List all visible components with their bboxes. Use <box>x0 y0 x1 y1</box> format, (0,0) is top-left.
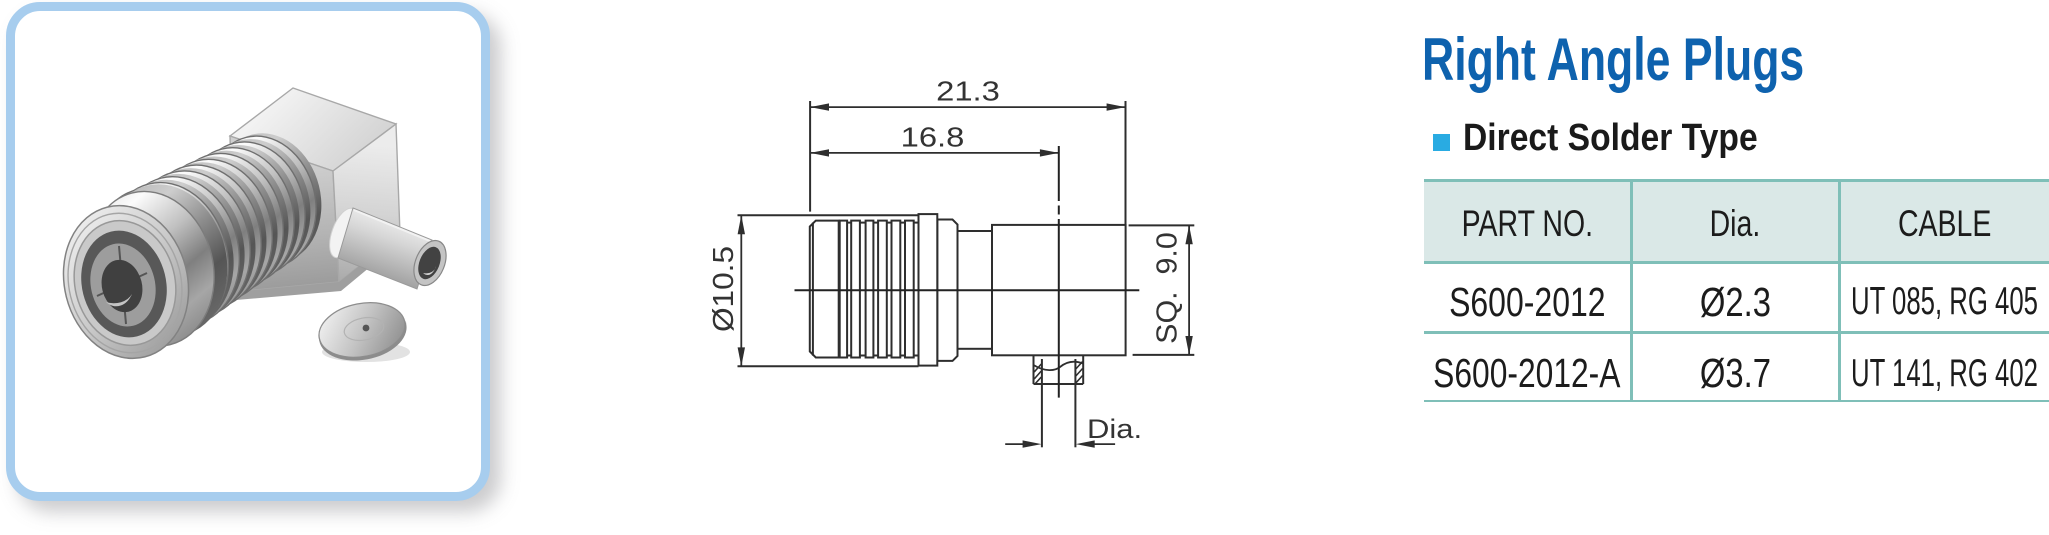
sleeve diagonal slot <box>97 273 147 296</box>
Dia. leader left <box>1005 443 1024 445</box>
cap disc top <box>314 296 410 365</box>
front rim <box>810 221 839 358</box>
cap disc inner ring <box>342 314 385 343</box>
body rib ring 5 <box>143 147 287 313</box>
dimension line SQ 9.0 <box>1188 225 1190 355</box>
Dia. bore extension lines <box>1041 384 1043 447</box>
row2 dia <box>1632 340 1838 407</box>
extension line right of 21.3 <box>1125 101 1127 225</box>
block lower edge shadow <box>234 234 400 300</box>
header CABLE <box>1840 184 2049 264</box>
rib 6 <box>905 221 914 358</box>
right angle block top face <box>230 88 396 171</box>
extension lines SQ 9.0 <box>1129 224 1195 226</box>
header Dia. <box>1632 184 1838 264</box>
cap disc shadow <box>322 342 410 362</box>
sleeve interior highlight <box>106 294 132 306</box>
contact sleeve <box>82 237 164 334</box>
body rib ring 0 <box>77 175 233 355</box>
solder pot right wall <box>1082 355 1084 384</box>
extension line left of 21.3/16.8 <box>809 101 811 212</box>
svg-text:Ø10.5: Ø10.5 <box>708 246 740 332</box>
front rim inner edge <box>812 223 814 356</box>
arrow bottom dia10.5 <box>738 347 745 366</box>
extension lines dia 10.5 <box>738 214 919 216</box>
rim step ring <box>54 201 197 365</box>
Dia. leader right <box>1093 443 1115 445</box>
arrow top dia10.5 <box>738 215 745 234</box>
solder pot break wave <box>1034 362 1084 370</box>
rib 5 <box>892 221 901 358</box>
flange <box>919 214 938 366</box>
svg-text:Dia.: Dia. <box>1087 415 1142 445</box>
rib 2 <box>851 221 860 358</box>
svg-text:SQ. 9.0: SQ. 9.0 <box>1151 232 1183 344</box>
front face inner ring <box>61 210 189 356</box>
body rib ring 8 <box>182 130 319 287</box>
bore shadow ring <box>70 221 178 346</box>
horizontal line row separator <box>1424 331 2049 334</box>
body rib ring 1 <box>90 169 243 346</box>
groove ring 7 <box>175 133 313 292</box>
header background <box>1424 181 2049 263</box>
insulator collar at tube root <box>324 204 364 261</box>
dimension line dia 10.5 <box>740 215 742 366</box>
solder pot inner right <box>1074 359 1076 384</box>
ring behind flange <box>937 220 957 361</box>
sleeve interior <box>96 255 148 316</box>
groove ring 0 <box>84 172 238 350</box>
horizontal centerline <box>795 289 1140 291</box>
sleeve slot line <box>119 246 126 324</box>
svg-text:16.8: 16.8 <box>901 121 965 152</box>
body rib ring 6 <box>156 141 298 304</box>
tube top highlight <box>354 210 430 241</box>
right angle block right face <box>333 124 400 282</box>
row1 part no <box>1424 269 1630 336</box>
vertical line col2/col3 <box>1838 179 1841 402</box>
groove ring 1 <box>97 167 249 342</box>
horizontal line bottom <box>1424 400 2049 403</box>
right angle block front face <box>230 136 339 292</box>
groove ring 5 <box>149 144 292 308</box>
body rib ring 2 <box>104 164 255 338</box>
dimension line 16.8 <box>810 152 1059 154</box>
groove ring 8 <box>188 127 324 283</box>
body rib ring 3 <box>117 158 266 329</box>
front face <box>48 192 205 372</box>
arrow right 16.8 <box>1040 149 1059 156</box>
arrow right 21.3 <box>1107 103 1126 110</box>
groove ring 9 <box>201 122 335 275</box>
photo box <box>6 2 490 501</box>
groove ring 3 <box>123 156 270 326</box>
vertical line col1/col2 <box>1630 179 1633 402</box>
neck cylinder <box>958 231 993 349</box>
header PART NO. <box>1424 184 1630 264</box>
connector photo <box>6 2 490 501</box>
title Right Angle Plugs <box>1422 25 1808 94</box>
arrow left 21.3 <box>810 103 829 110</box>
body rib ring 9 <box>195 125 330 280</box>
horizontal line header bottom <box>1424 261 2049 264</box>
body front rim band <box>72 178 230 360</box>
solder pot inner left <box>1041 359 1043 384</box>
table <box>1424 179 2049 402</box>
body rib ring 4 <box>130 153 276 321</box>
horizontal line top <box>1424 179 2049 182</box>
rib 1 <box>840 221 847 358</box>
rib 4 <box>878 221 887 358</box>
cable stub tube <box>338 208 432 289</box>
bullet square <box>1433 134 1450 151</box>
hatch left wall <box>1034 364 1041 372</box>
subtitle Direct Solder Type <box>1463 117 1835 160</box>
cap disc center dot <box>363 325 370 332</box>
tube end face <box>408 236 452 290</box>
arrow bottom SQ9.0 <box>1185 336 1192 355</box>
groove ring 6 <box>162 139 303 300</box>
solder pot left wall <box>1033 355 1035 384</box>
svg-text:21.3: 21.3 <box>936 76 1000 107</box>
tube bore <box>414 243 445 282</box>
cap disc thickness <box>319 318 407 361</box>
groove behind front rim <box>88 171 243 350</box>
groove ring 2 <box>110 161 260 333</box>
row1 cable <box>1851 269 2049 336</box>
rib 3 <box>866 221 874 358</box>
row1 dia <box>1632 269 1838 336</box>
body rib ring 7 <box>169 136 309 296</box>
solder pot bottom <box>1034 383 1084 385</box>
row2 part no <box>1424 340 1630 407</box>
row2 cable <box>1851 340 2049 407</box>
arrow top SQ9.0 <box>1185 225 1192 244</box>
tube bore highlight <box>423 266 436 275</box>
knurl groove base <box>839 223 919 356</box>
hatch right wall <box>1076 362 1083 370</box>
groove ring 4 <box>136 150 281 317</box>
technical drawing <box>640 40 1330 535</box>
vertical centerline / 16.8 extension <box>1058 146 1060 201</box>
arrow left 16.8 <box>810 149 829 156</box>
dimension line 21.3 <box>810 106 1125 108</box>
right angle block <box>992 225 1126 355</box>
